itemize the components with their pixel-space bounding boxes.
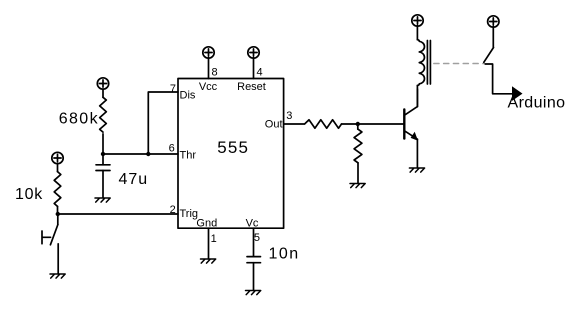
label 47u (119, 171, 149, 188)
relay coil L1 (417, 40, 424, 86)
wire power to R2 (57, 164, 59, 172)
power symbol pin8 Vcc (203, 47, 214, 58)
wire R4 to ground (357, 163, 359, 183)
svg-text:8: 8 (212, 67, 218, 79)
junction base node (356, 122, 360, 126)
label 10n (269, 246, 300, 263)
svg-text:7: 7 (170, 83, 176, 95)
pin label Reset (237, 81, 266, 93)
transistor Q1 base bar (403, 109, 405, 138)
wire threshold to C1 (102, 154, 104, 165)
power symbol above relay coil (412, 15, 423, 26)
svg-text:10n: 10n (269, 246, 300, 263)
svg-text:Out: Out (265, 119, 283, 131)
svg-text:680k: 680k (59, 111, 99, 128)
svg-text:Arduino: Arduino (508, 95, 566, 112)
junction threshold left (101, 152, 105, 156)
pin label Dis (180, 90, 196, 102)
wire base node to R4 (357, 124, 359, 129)
pin number 2 (170, 204, 176, 216)
pin number 6 (169, 143, 175, 155)
wire pin5 to C2 (253, 228, 255, 256)
svg-text:6: 6 (169, 143, 175, 155)
wire trigger to switch S1 (57, 214, 59, 225)
wire pin1 to ground (208, 228, 210, 258)
wire power to coil (416, 26, 418, 40)
pin number 4 (257, 67, 263, 79)
wire C1 to ground (102, 171, 104, 198)
svg-text:Thr: Thr (180, 150, 197, 162)
capacitor C1 47u plates (96, 165, 110, 171)
pin label Trig (180, 208, 199, 220)
junction discharge (146, 152, 150, 156)
wire pin7 discharge branch (148, 92, 178, 154)
wire emitter to ground (416, 139, 418, 167)
ground S1 (50, 274, 65, 278)
ground pin1 (201, 259, 216, 263)
svg-text:3: 3 (286, 110, 292, 122)
wire threshold node (103, 153, 178, 155)
wire S1 lower terminal (57, 244, 59, 274)
ground C1 (95, 198, 110, 202)
label 555 (217, 138, 249, 157)
transistor Q1 emitter (404, 131, 418, 141)
pin number 8 (212, 67, 218, 79)
wire R2 to trigger (57, 206, 59, 214)
capacitor C2 10n plates (247, 257, 261, 263)
wire pin8 to Vcc (208, 58, 210, 79)
transistor Q1 collector (404, 89, 417, 115)
power symbol above R2 10k (52, 152, 63, 163)
label 680k (59, 111, 99, 128)
wire power to R1 (102, 89, 104, 97)
resistor R1 680k (100, 97, 107, 132)
pin label Out (265, 119, 283, 131)
ground C2 (246, 291, 261, 295)
pin label Vc (246, 217, 259, 229)
svg-text:Reset: Reset (237, 81, 266, 93)
svg-text:Dis: Dis (180, 90, 196, 102)
wire R1 to threshold (102, 134, 104, 154)
pin number 1 (211, 233, 217, 245)
wire R3 to base node (342, 123, 405, 125)
power symbol pin4 Reset (248, 47, 259, 58)
junction trigger (56, 212, 60, 216)
svg-text:Vcc: Vcc (199, 81, 218, 93)
resistor R2 10k (54, 172, 61, 207)
svg-text:Vc: Vc (246, 217, 259, 229)
pin label Gnd (196, 217, 217, 229)
wire C2 to ground (253, 263, 255, 290)
svg-text:10k: 10k (15, 186, 43, 203)
resistor R3 series output (305, 120, 342, 128)
wire trigger node (58, 213, 178, 215)
arrow to Arduino (512, 86, 523, 101)
wire pin4 to Reset (253, 58, 255, 79)
resistor R4 pulldown (354, 129, 362, 163)
relay contact blade (484, 48, 494, 63)
wire coil to collector (416, 85, 418, 106)
ic 555 U1 body (178, 79, 284, 229)
pushbutton S1 blade (50, 225, 58, 245)
svg-text:555: 555 (217, 138, 249, 157)
pushbutton S1 plunger (42, 231, 51, 244)
ground R4 (350, 184, 365, 188)
power symbol above relay contact (488, 16, 499, 27)
svg-text:Gnd: Gnd (196, 217, 217, 229)
ground Q1 emitter (409, 168, 424, 172)
pin number 3 (286, 110, 292, 122)
svg-text:Trig: Trig (180, 208, 199, 220)
pin number 5 (254, 232, 260, 244)
wire power to contact (492, 27, 494, 48)
relay core (427, 41, 430, 85)
svg-text:5: 5 (254, 232, 260, 244)
pin label Vcc (199, 81, 218, 93)
svg-text:4: 4 (257, 67, 263, 79)
label 10k (15, 186, 43, 203)
svg-text:47u: 47u (119, 171, 149, 188)
relay contact lower terminal (485, 64, 514, 94)
dashed link coil to contact (434, 63, 485, 65)
power symbol above R1 680k (97, 78, 108, 89)
label Arduino (508, 95, 566, 112)
wire out pin to R3 (284, 123, 304, 125)
pin label Thr (180, 150, 197, 162)
svg-text:1: 1 (211, 233, 217, 245)
pin number 7 (170, 83, 176, 95)
